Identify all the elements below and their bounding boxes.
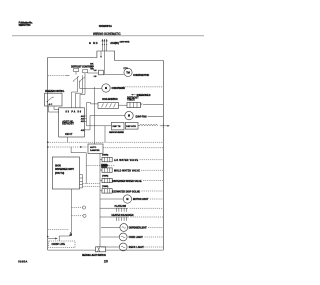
svg-text:COOL MONITOR: COOL MONITOR bbox=[102, 98, 118, 101]
svg-text:COMPR MOTOR: COMPR MOTOR bbox=[133, 74, 149, 77]
svg-text:ADJ (BK): ADJ (BK) bbox=[110, 42, 119, 45]
svg-text:DEF HTR: DEF HTR bbox=[126, 126, 136, 128]
svg-text:CM CT: CM CT bbox=[65, 134, 73, 136]
svg-text:DEFROST: DEFROST bbox=[62, 123, 74, 126]
svg-text:5995377753: 5995377753 bbox=[19, 23, 31, 27]
svg-text:EVAP FAN: EVAP FAN bbox=[136, 115, 147, 118]
svg-text:120V 60HZ: 120V 60HZ bbox=[120, 41, 131, 43]
svg-text:FRZR LIGHT: FRZR LIGHT bbox=[129, 237, 144, 239]
svg-text:COND FAN MTR: COND FAN MTR bbox=[112, 87, 126, 90]
svg-text:G RD: G RD bbox=[89, 42, 98, 45]
svg-text:MOTOR ASSY: MOTOR ASSY bbox=[133, 198, 149, 201]
svg-text:(TMR): (TMR) bbox=[102, 155, 108, 157]
svg-text:L4: L4 bbox=[94, 69, 97, 72]
svg-text:DEFROST HEATER: DEFROST HEATER bbox=[109, 131, 124, 134]
svg-text:DISPENSER WATER VALVE: DISPENSER WATER VALVE bbox=[112, 180, 142, 183]
svg-text:TIMER: TIMER bbox=[127, 99, 135, 102]
svg-text:AUTO: AUTO bbox=[90, 146, 96, 149]
svg-text:20: 20 bbox=[104, 260, 108, 264]
svg-text:M: M bbox=[126, 198, 128, 201]
svg-text:GN: GN bbox=[90, 69, 94, 71]
svg-text:PLATE SW: PLATE SW bbox=[115, 205, 127, 208]
svg-text:ICE/WATER DISP SOLND: ICE/WATER DISP SOLND bbox=[112, 191, 140, 194]
svg-text:(TMR): (TMR) bbox=[102, 165, 108, 167]
svg-text:(TMR): (TMR) bbox=[102, 186, 108, 188]
svg-text:L/A WATER VALVE: L/A WATER VALVE bbox=[114, 159, 138, 162]
svg-text:TM: TM bbox=[126, 72, 130, 75]
svg-text:M: M bbox=[128, 115, 130, 118]
svg-text:DISPENSER ASSY: DISPENSER ASSY bbox=[55, 168, 74, 171]
svg-text:DISPENSER LIGHT: DISPENSER LIGHT bbox=[129, 228, 147, 230]
svg-text:CRISP LITE: CRISP LITE bbox=[52, 243, 66, 246]
svg-text:REFRIG LIGHT SWITCH: REFRIG LIGHT SWITCH bbox=[82, 254, 106, 257]
svg-text:M: M bbox=[105, 87, 107, 90]
svg-text:5995A: 5995A bbox=[18, 260, 27, 264]
svg-text:(P/N TH): (P/N TH) bbox=[55, 173, 64, 175]
svg-text:HEATER ICE MAKER: HEATER ICE MAKER bbox=[112, 214, 134, 217]
svg-text:L1 C: L1 C bbox=[48, 104, 53, 106]
svg-text:DAMPER: DAMPER bbox=[90, 149, 100, 152]
svg-text:L6: L6 bbox=[94, 76, 97, 78]
svg-text:SIGN: SIGN bbox=[55, 165, 61, 167]
svg-text:WIRING SCHEMATIC: WIRING SCHEMATIC bbox=[93, 31, 121, 36]
svg-text:63 PA 56: 63 PA 56 bbox=[66, 110, 82, 113]
svg-text:SXS230P1A: SXS230P1A bbox=[99, 24, 113, 28]
svg-text:REFR LIGHT: REFR LIGHT bbox=[129, 247, 145, 249]
svg-text:DEF TB: DEF TB bbox=[113, 126, 121, 128]
svg-text:(TMR): (TMR) bbox=[102, 175, 108, 177]
svg-text:MOLD WATER VALVE: MOLD WATER VALVE bbox=[114, 170, 140, 173]
